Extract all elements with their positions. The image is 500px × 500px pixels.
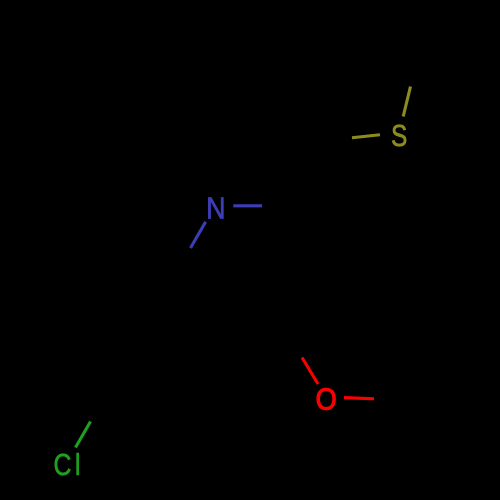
- bond Cl-C(aryl) half (green): [76, 422, 91, 448]
- bond S-CH3 half (olive): [403, 87, 410, 117]
- bond O-CH2 half (red): [302, 358, 318, 385]
- svg-text:S: S: [391, 118, 407, 153]
- svg-text:l: l: [75, 448, 81, 482]
- bond S-C(thienyl) half (olive): [352, 135, 380, 138]
- svg-text:N: N: [206, 192, 225, 226]
- carbon skeleton (black on black, invisible in source render): [96, 55, 420, 434]
- svg-text:C: C: [54, 447, 72, 481]
- bond N-C(aryl) half (blue): [191, 222, 206, 248]
- bond O-CH3 half (red): [344, 398, 374, 399]
- svg-text:O: O: [316, 383, 337, 417]
- bond N=C half (blue): [233, 204, 262, 207]
